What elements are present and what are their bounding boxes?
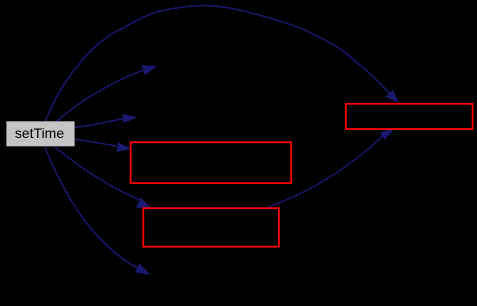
node box1 (red) <box>131 142 292 183</box>
arrowhead E2 <box>142 65 157 75</box>
node box2 (red) <box>143 208 279 247</box>
arrowhead E1 <box>386 90 400 104</box>
arrowhead E5 <box>136 198 152 209</box>
wire edge setTime to node2 <box>55 147 140 200</box>
wire edge setTime to node1 <box>74 139 116 146</box>
arrowhead E6 <box>135 264 151 275</box>
arrowhead E3 <box>123 114 138 123</box>
svg-text:setTime: setTime <box>15 125 64 141</box>
arrowhead E4 <box>117 142 132 152</box>
wire edge setTime upper-right <box>57 70 144 121</box>
wire edge setTime to node3 (top arc) <box>45 5 389 121</box>
wire edge node2 to node3 <box>267 136 382 207</box>
wire edge setTime to mid arrow <box>74 119 123 128</box>
node box3 (red) <box>346 104 473 129</box>
wire edge setTime lower arrow <box>45 148 137 268</box>
node setTime (gray) <box>6 121 74 146</box>
arrowhead E7 <box>380 128 395 140</box>
